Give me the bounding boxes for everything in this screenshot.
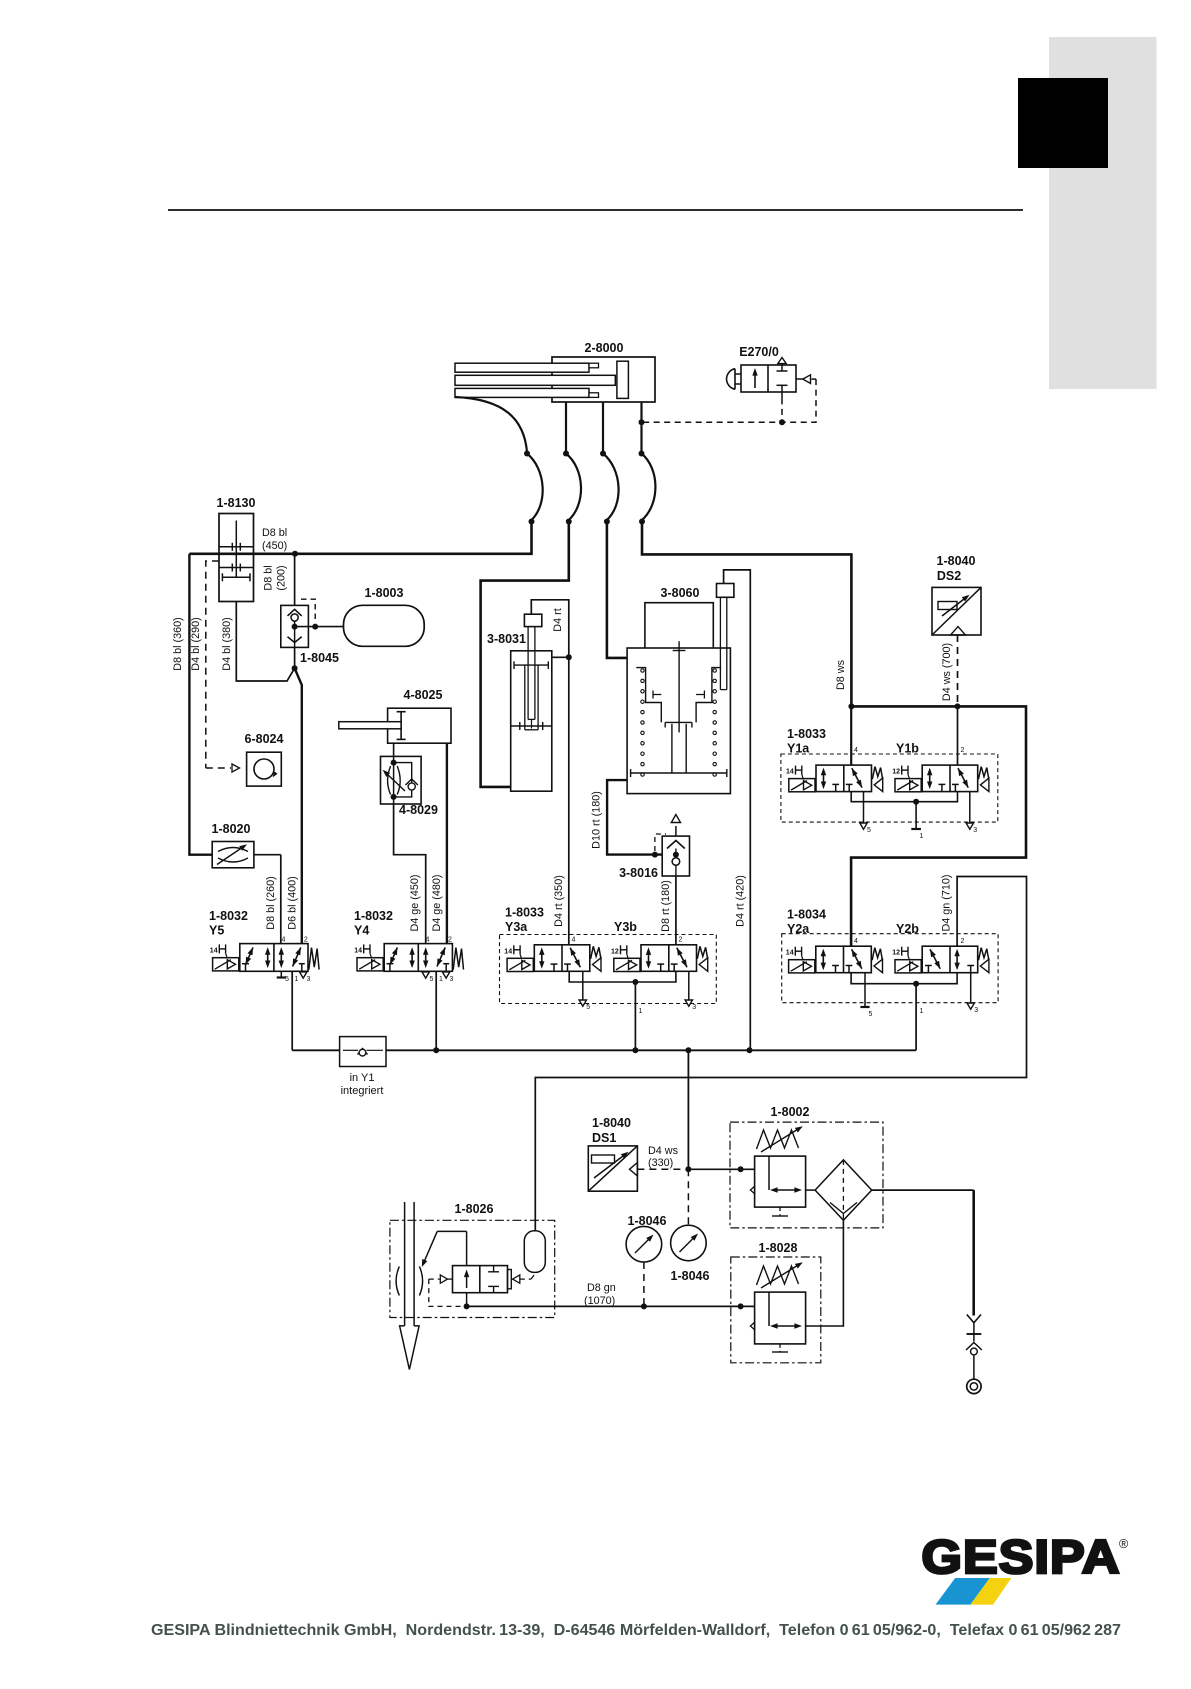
pipe D8 rt (180) — [660, 876, 676, 945]
svg-text:1: 1 — [439, 976, 443, 983]
svg-text:3: 3 — [974, 1007, 978, 1014]
svg-text:D4 rt (420): D4 rt (420) — [735, 875, 747, 927]
riser tube of 3-8060 — [717, 584, 734, 690]
svg-text:GESIPA: GESIPA — [922, 1530, 1121, 1583]
Y1a port 4 line — [850, 706, 852, 765]
quick coupling — [967, 1379, 981, 1393]
svg-text:3: 3 — [307, 976, 311, 983]
left pilot of blow valve — [429, 1275, 461, 1307]
valve 1-8033 Y3b — [611, 920, 708, 972]
svg-text:Y1a: Y1a — [787, 742, 810, 756]
svg-text:12: 12 — [611, 948, 619, 955]
svg-text:5: 5 — [867, 827, 871, 834]
svg-text:Y3b: Y3b — [614, 920, 637, 934]
svg-text:1-8003: 1-8003 — [365, 586, 404, 600]
svg-text:3: 3 — [973, 827, 977, 834]
svg-text:DS1: DS1 — [592, 1131, 616, 1145]
svg-text:1-8002: 1-8002 — [771, 1105, 810, 1119]
supply loop to Y2a — [851, 706, 1026, 946]
pipe D4 ws (330) dashed — [637, 1145, 688, 1169]
filter separator diamond — [806, 1160, 872, 1220]
svg-text:Y1b: Y1b — [896, 742, 919, 756]
pipe D4 rt to 3-8031 — [531, 600, 572, 661]
valve 1-8032 Y4 — [354, 909, 464, 971]
wire hose 3 from tool — [600, 402, 627, 658]
svg-text:Y2b: Y2b — [896, 922, 919, 936]
svg-text:1-8026: 1-8026 — [455, 1202, 494, 1216]
svg-text:Y4: Y4 — [354, 924, 369, 938]
pilot check valve 1-8045 — [281, 605, 339, 671]
valve block 1-8033 Y3a — [500, 906, 717, 1004]
svg-text:1: 1 — [920, 833, 924, 840]
valve block 1-8034 Y2a — [782, 908, 998, 1003]
svg-text:D4 gn (710): D4 gn (710) — [941, 874, 953, 931]
svg-text:1-8032: 1-8032 — [354, 909, 393, 923]
suction arrow — [422, 1231, 467, 1267]
svg-text:1-8033: 1-8033 — [505, 906, 544, 920]
pressure switch 1-8040 DS1 — [588, 1116, 637, 1191]
pipe D4 bl (380) — [221, 602, 295, 682]
svg-text:2-8000: 2-8000 — [585, 341, 624, 355]
svg-text:12: 12 — [892, 950, 900, 957]
gauge 1-8046 left — [626, 1214, 666, 1306]
svg-text:5: 5 — [430, 976, 434, 983]
accumulator 1-8003 — [344, 586, 425, 646]
maintenance unit 1-8130 — [217, 496, 256, 602]
svg-text:3: 3 — [450, 976, 454, 983]
svg-text:5: 5 — [869, 1011, 873, 1018]
rivet tool 2-8000 — [455, 341, 655, 402]
svg-text:1-8040: 1-8040 — [937, 554, 976, 568]
svg-text:4: 4 — [854, 747, 858, 754]
check valve 3-8016 — [619, 815, 689, 881]
suction unit 1-8026 — [390, 1202, 555, 1318]
cylinder 4-8025 — [339, 688, 451, 756]
svg-text:D4 ge (450): D4 ge (450) — [409, 874, 421, 931]
Y4 port 3 exhaust — [442, 972, 453, 983]
mandrel channel arrow — [400, 1202, 420, 1370]
throttle valve 1-8020 — [212, 822, 281, 868]
svg-text:1-8034: 1-8034 — [787, 908, 826, 922]
right pilot of blow valve — [511, 1274, 535, 1284]
hand valve E270/0 — [727, 345, 811, 398]
svg-text:14: 14 — [786, 950, 794, 957]
svg-text:5: 5 — [586, 1004, 590, 1011]
pressure switch 1-8040 DS2 — [932, 554, 981, 635]
svg-text:1-8028: 1-8028 — [759, 1241, 798, 1255]
svg-text:D8 rt (180): D8 rt (180) — [660, 880, 672, 932]
pipe D4 bl (290) dashed to motor — [190, 561, 240, 772]
Y5 port 5 exhaust — [277, 971, 289, 983]
pipe D4 ge (450) — [394, 804, 426, 944]
wire hose 2 from tool — [481, 402, 581, 787]
pipe D4 rt (350) — [553, 657, 569, 945]
svg-text:(450): (450) — [262, 540, 287, 552]
pipe D6 bl (400) — [287, 668, 302, 943]
pipe D8 bl (260) — [265, 855, 281, 944]
svg-text:(200): (200) — [276, 565, 288, 590]
svg-text:2: 2 — [961, 747, 965, 754]
main bus line — [386, 1047, 916, 1053]
svg-text:in Y1: in Y1 — [350, 1072, 375, 1084]
svg-text:3-8016: 3-8016 — [619, 866, 658, 880]
svg-text:12: 12 — [892, 769, 900, 776]
logo parallelogram blue — [936, 1578, 990, 1605]
pipe D8 ws — [835, 659, 854, 709]
svg-text:14: 14 — [210, 947, 218, 954]
svg-text:4-8025: 4-8025 — [404, 688, 443, 702]
svg-text:D8 bl: D8 bl — [262, 527, 287, 539]
air motor 6-8024 — [245, 732, 284, 786]
svg-text:D10 rt (180): D10 rt (180) — [591, 791, 603, 849]
valve 1-8033 Y1b — [892, 742, 989, 792]
svg-text:D4 bl (290): D4 bl (290) — [190, 617, 202, 670]
svg-text:(330): (330) — [648, 1157, 673, 1169]
svg-text:E270/0: E270/0 — [739, 345, 779, 359]
svg-text:1: 1 — [639, 1008, 643, 1015]
venturi arcs — [396, 1267, 422, 1296]
wire hose 1 from tool — [189, 397, 542, 554]
pipe D4 ge (480) — [431, 744, 447, 944]
link 1-8045 to accumulator — [295, 626, 344, 628]
hydraulic intensifier 3-8031 — [487, 614, 552, 791]
svg-text:2: 2 — [961, 938, 965, 945]
svg-text:D8 bl: D8 bl — [263, 565, 275, 590]
svg-text:1-8040: 1-8040 — [592, 1116, 631, 1130]
svg-text:4-8029: 4-8029 — [399, 803, 438, 817]
svg-text:4: 4 — [854, 938, 858, 945]
Y4 port 5 exhaust — [422, 972, 434, 983]
svg-text:GESIPA Blindniettechnik GmbH,: GESIPA Blindniettechnik GmbH, Nordendstr… — [151, 1622, 1121, 1639]
svg-text:D4 ge (480): D4 ge (480) — [431, 874, 443, 931]
shut-off coupling — [967, 1315, 982, 1342]
mini accumulator of 1-8026 — [524, 1231, 545, 1273]
svg-text:1-8033: 1-8033 — [787, 727, 826, 741]
svg-text:2: 2 — [304, 937, 308, 944]
Y1b port 2 line — [957, 706, 959, 765]
Y3b exhaust — [685, 971, 696, 1011]
Y5 port 1 line — [292, 971, 298, 1050]
Y5 port 3 exhaust — [300, 972, 311, 983]
svg-text:1-8045: 1-8045 — [300, 651, 339, 665]
svg-text:3-8060: 3-8060 — [661, 586, 700, 600]
oil reservoir 3-8060 — [627, 586, 730, 794]
svg-text:14: 14 — [786, 769, 794, 776]
header rule — [168, 209, 1023, 211]
pressure regulator 1-8028 — [731, 1241, 821, 1363]
svg-text:4: 4 — [572, 937, 576, 944]
pipe D4 ws (700) dashed — [941, 635, 961, 709]
svg-text:2: 2 — [448, 937, 452, 944]
svg-text:1-8032: 1-8032 — [209, 909, 248, 923]
flow control valve 4-8029 — [381, 756, 438, 817]
svg-text:14: 14 — [354, 947, 362, 954]
pipe D4 gn (710) — [535, 874, 1026, 1230]
svg-text:(1070): (1070) — [584, 1295, 615, 1307]
gauge 1-8046 right — [671, 1169, 710, 1283]
wire hose 4 from tool — [639, 402, 852, 706]
pipe D8 bl (360) left drop — [172, 554, 212, 855]
pipe D8 bl (450) bus — [262, 527, 298, 557]
svg-text:D8 bl (260): D8 bl (260) — [265, 876, 277, 929]
svg-text:14: 14 — [504, 948, 512, 955]
svg-text:1-8046: 1-8046 — [671, 1269, 710, 1283]
pipe D10 rt (180) — [591, 780, 663, 855]
svg-text:5: 5 — [285, 976, 289, 983]
svg-text:4: 4 — [282, 937, 286, 944]
svg-text:DS2: DS2 — [937, 569, 961, 583]
black corner square — [1018, 78, 1108, 168]
svg-text:3: 3 — [692, 1004, 696, 1011]
svg-text:D4 ws: D4 ws — [648, 1145, 679, 1157]
svg-text:D4 ws (700): D4 ws (700) — [941, 643, 953, 701]
svg-text:1-8020: 1-8020 — [212, 822, 251, 836]
Y1 interconnect port 1 — [851, 792, 957, 840]
filter regulator 1-8002 — [730, 1105, 883, 1228]
svg-text:integriert: integriert — [341, 1085, 384, 1097]
Y4 port 1 line — [436, 971, 443, 1050]
check valve in Y1 integriert — [292, 1037, 386, 1097]
svg-text:D4 rt (350): D4 rt (350) — [553, 875, 565, 927]
valve 1-8032 Y5 — [209, 909, 319, 971]
Y3a exhaust — [579, 971, 590, 1011]
pilot line E270/0 to hose 4 — [642, 379, 817, 425]
Y2a exhaust port 5 — [860, 973, 872, 1018]
supply column — [972, 1190, 975, 1315]
svg-text:D8 ws: D8 ws — [835, 659, 847, 690]
check valve at coupling — [966, 1343, 982, 1380]
svg-text:D4 bl (380): D4 bl (380) — [221, 617, 233, 670]
pipe D8 bl (200) — [263, 554, 295, 606]
Y2b exhaust — [967, 973, 978, 1014]
svg-text:D8 gn: D8 gn — [587, 1282, 616, 1294]
svg-text:3-8031: 3-8031 — [487, 632, 526, 646]
svg-text:D4 rt: D4 rt — [552, 608, 564, 631]
GESIPA logo — [922, 1530, 1130, 1583]
air supply line — [872, 1189, 974, 1191]
blow valve outlet — [464, 1293, 470, 1310]
logo parallelogram yellow — [970, 1578, 1011, 1605]
feed drop to regulator junction — [685, 1050, 754, 1172]
pilot line of 1-8045 — [301, 599, 318, 629]
svg-text:D8 bl (360): D8 bl (360) — [172, 617, 184, 670]
svg-text:2: 2 — [679, 937, 683, 944]
valve block 1-8033 Y1a — [781, 727, 998, 822]
svg-text:1: 1 — [295, 976, 299, 983]
svg-text:1: 1 — [920, 1008, 924, 1015]
pipe D4 rt (420) — [724, 570, 751, 1050]
link 1-8028 to filter — [806, 1220, 844, 1326]
svg-text:®: ® — [1119, 1537, 1129, 1551]
Y1a exhaust — [860, 792, 871, 834]
grey sidebar band — [1049, 37, 1157, 389]
svg-text:Y5: Y5 — [209, 924, 224, 938]
blow valve of 1-8026 — [453, 1266, 512, 1293]
pipe D8 gn (1070) — [467, 1282, 755, 1309]
svg-text:D6 bl (400): D6 bl (400) — [287, 876, 299, 929]
Y1b exhaust — [966, 792, 977, 834]
valve 1-8034 Y2b — [892, 922, 989, 973]
svg-text:1-8130: 1-8130 — [217, 496, 256, 510]
Y2 interconnect port 1 — [851, 973, 957, 1051]
svg-text:6-8024: 6-8024 — [245, 732, 284, 746]
Y3 interconnect port 1 — [569, 971, 676, 1050]
footer address line — [151, 1622, 1121, 1639]
svg-text:Y3a: Y3a — [505, 920, 528, 934]
